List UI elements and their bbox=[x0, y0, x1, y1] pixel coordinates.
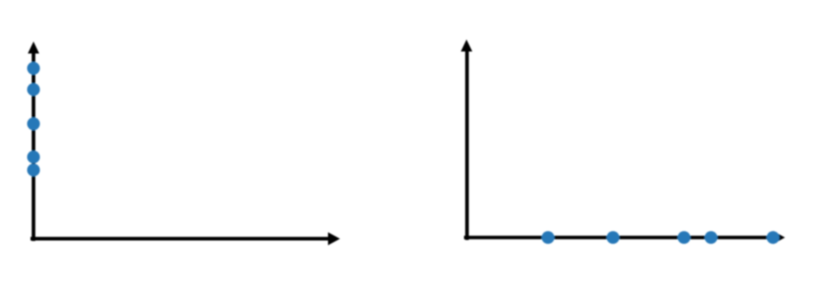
left plot x-axis line bbox=[31, 237, 331, 241]
right plot x-axis arrowhead bbox=[773, 231, 785, 244]
right plot data point 1 bbox=[542, 231, 555, 244]
left plot x-axis arrowhead bbox=[328, 232, 340, 245]
left plot data point 5 bbox=[27, 164, 40, 177]
left plot data point 4 bbox=[27, 151, 40, 164]
left plot data point 3 bbox=[27, 117, 40, 130]
left plot y-axis line bbox=[32, 50, 36, 241]
right plot data point 4 bbox=[705, 231, 718, 244]
left plot data point 2 bbox=[27, 83, 40, 96]
right plot data point 3 bbox=[678, 231, 691, 244]
left plot y-axis arrowhead bbox=[28, 42, 39, 54]
left plot data point 1 bbox=[27, 62, 40, 75]
right plot data point 2 bbox=[607, 231, 620, 244]
right plot x-axis line bbox=[464, 236, 776, 240]
right plot data point 5 bbox=[767, 231, 780, 244]
right plot y-axis line bbox=[465, 48, 469, 240]
right plot y-axis arrowhead bbox=[461, 40, 473, 52]
